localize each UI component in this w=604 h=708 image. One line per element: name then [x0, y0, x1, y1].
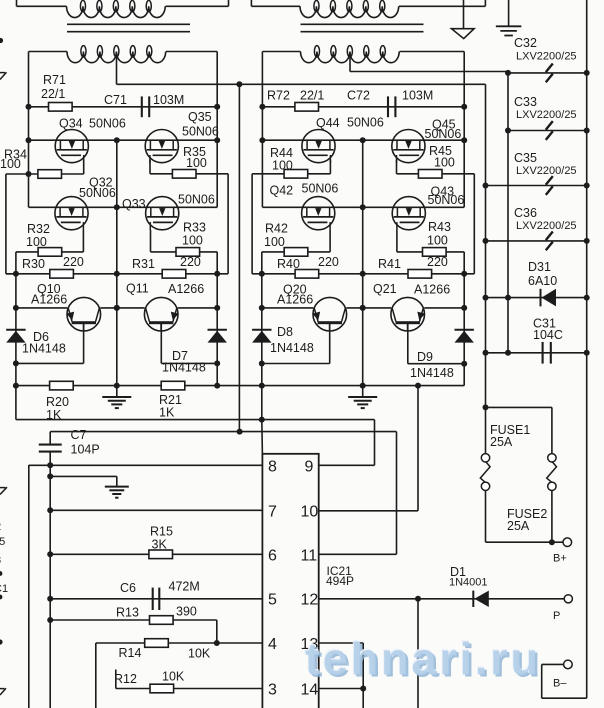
svg-text:1N4148: 1N4148: [410, 366, 454, 380]
svg-text:11: 11: [301, 547, 318, 564]
svg-text:1N4148: 1N4148: [270, 341, 314, 355]
svg-text:100: 100: [0, 157, 21, 171]
svg-text:1N4148: 1N4148: [162, 361, 206, 375]
svg-text:C1: C1: [0, 583, 8, 595]
svg-text:D9: D9: [417, 350, 433, 364]
svg-text:LXV2200/25: LXV2200/25: [516, 220, 577, 232]
svg-text:C72: C72: [347, 89, 370, 103]
svg-text:Q33: Q33: [122, 197, 146, 211]
svg-text:390: 390: [176, 605, 197, 619]
svg-text:100: 100: [272, 159, 293, 173]
svg-text:Q44: Q44: [316, 116, 340, 130]
svg-text:B+: B+: [553, 553, 567, 565]
svg-text:R20: R20: [46, 395, 69, 409]
svg-text:45: 45: [0, 536, 5, 548]
svg-text:12: 12: [301, 592, 319, 609]
svg-text:A1266: A1266: [414, 283, 450, 297]
svg-text:50N06: 50N06: [79, 186, 116, 200]
svg-text:100: 100: [427, 234, 448, 248]
svg-text:472M: 472M: [169, 580, 200, 594]
svg-text:R12: R12: [114, 672, 137, 686]
svg-text:50N06: 50N06: [425, 127, 462, 141]
svg-text:C33: C33: [514, 95, 537, 109]
svg-text:LXV2200/25: LXV2200/25: [516, 165, 577, 177]
svg-text:D31: D31: [528, 260, 551, 274]
svg-text:R72: R72: [267, 89, 290, 103]
svg-text:22/1: 22/1: [300, 89, 324, 103]
svg-text:R13: R13: [116, 606, 139, 620]
svg-text:50N06: 50N06: [182, 125, 219, 139]
svg-text:3: 3: [268, 681, 277, 698]
svg-text:50N06: 50N06: [302, 182, 339, 196]
svg-text:25A: 25A: [507, 519, 530, 533]
svg-text:C32: C32: [514, 36, 537, 50]
svg-text:104P: 104P: [71, 443, 100, 457]
svg-text:R71: R71: [43, 73, 66, 87]
svg-text:1N4148: 1N4148: [22, 341, 66, 355]
svg-text:C36: C36: [514, 206, 537, 220]
svg-text:220: 220: [63, 255, 84, 269]
svg-text:4: 4: [268, 636, 277, 653]
svg-text:220: 220: [180, 255, 201, 269]
svg-text:220: 220: [318, 255, 339, 269]
svg-text:100: 100: [434, 155, 455, 169]
svg-text:50N06: 50N06: [178, 193, 215, 207]
svg-text:C7: C7: [71, 428, 87, 442]
svg-text:R32: R32: [27, 222, 50, 236]
svg-text:D8: D8: [277, 325, 293, 339]
svg-text:10K: 10K: [162, 670, 185, 684]
svg-text:R42: R42: [265, 222, 288, 236]
svg-text:5: 5: [268, 592, 277, 609]
svg-text:R40: R40: [277, 257, 300, 271]
svg-text:3K: 3K: [152, 538, 168, 552]
svg-text:C35: C35: [514, 151, 537, 165]
svg-text:50N06: 50N06: [428, 193, 465, 207]
svg-text:100: 100: [26, 235, 47, 249]
svg-text:10K: 10K: [188, 647, 211, 661]
svg-text:1N4001: 1N4001: [449, 577, 488, 589]
svg-text:6: 6: [268, 547, 277, 564]
svg-text:P: P: [553, 610, 560, 622]
svg-text:103M: 103M: [153, 93, 184, 107]
svg-text:C6: C6: [120, 581, 136, 595]
svg-text:Q21: Q21: [373, 282, 397, 296]
svg-text:100: 100: [264, 235, 285, 249]
svg-text:50N06: 50N06: [347, 116, 384, 130]
svg-text:220: 220: [427, 255, 448, 269]
svg-text:Q11: Q11: [126, 282, 149, 296]
svg-text:22/1: 22/1: [41, 87, 65, 101]
svg-text:R41: R41: [378, 257, 401, 271]
svg-text:3: 3: [0, 555, 1, 567]
svg-text:50N06: 50N06: [89, 117, 126, 131]
svg-text:LXV2200/25: LXV2200/25: [516, 109, 577, 121]
svg-text:104C: 104C: [533, 328, 563, 342]
svg-text:C71: C71: [104, 93, 127, 107]
svg-text:100: 100: [186, 156, 207, 170]
svg-text:R15: R15: [150, 525, 173, 539]
svg-text:LXV2200/25: LXV2200/25: [516, 51, 577, 63]
svg-text:494P: 494P: [326, 574, 354, 588]
svg-text:A1266: A1266: [277, 293, 313, 307]
svg-text:6A10: 6A10: [528, 274, 557, 288]
svg-text:Q34: Q34: [59, 117, 83, 131]
svg-text:25A: 25A: [490, 435, 513, 449]
svg-text:100: 100: [182, 234, 203, 248]
svg-text:103M: 103M: [402, 89, 433, 103]
svg-text:1K: 1K: [159, 406, 175, 420]
svg-text:7: 7: [268, 503, 277, 520]
svg-text:B–: B–: [553, 678, 567, 690]
svg-text:R31: R31: [132, 257, 155, 271]
svg-text:8: 8: [268, 458, 277, 475]
svg-text:Q35: Q35: [188, 110, 212, 124]
svg-text:R30: R30: [22, 257, 45, 271]
svg-text:R14: R14: [119, 646, 142, 660]
svg-text:2: 2: [0, 521, 1, 533]
svg-text:A1266: A1266: [31, 293, 67, 307]
svg-text:R43: R43: [428, 220, 451, 234]
svg-text:A1266: A1266: [168, 282, 204, 296]
svg-text:10: 10: [301, 503, 319, 520]
svg-text:9: 9: [305, 458, 314, 475]
svg-text:R33: R33: [183, 221, 206, 235]
svg-text:tehnari.ru: tehnari.ru: [305, 633, 541, 684]
svg-text:1K: 1K: [46, 408, 62, 422]
svg-text:Q42: Q42: [270, 184, 294, 198]
